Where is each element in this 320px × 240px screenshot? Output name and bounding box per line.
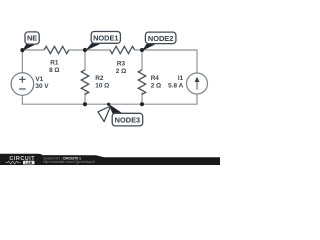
- node flag NE pointer: [22, 44, 35, 51]
- junction dot R2 bottom: [83, 102, 87, 106]
- svg-text:R1: R1: [50, 60, 59, 67]
- wire R2 bottom to bottom rail: [84, 92, 86, 104]
- V1 minus sign: [19, 88, 25, 90]
- junction dot NODE3 attach: [107, 103, 110, 106]
- junction dot NODE1: [83, 48, 87, 52]
- V1 plus sign: [19, 76, 25, 82]
- svg-text:R3: R3: [117, 60, 126, 67]
- node flag NODE3 box: [112, 113, 143, 126]
- svg-text:LAB: LAB: [25, 161, 33, 165]
- resistor R1: [44, 46, 69, 53]
- svg-text:NODE3: NODE3: [115, 116, 140, 125]
- svg-text:5.8 A: 5.8 A: [168, 83, 183, 90]
- watermark logo zigzag: [6, 161, 21, 164]
- I1 arrow stem: [196, 81, 198, 90]
- wire R4 bottom to bottom rail: [141, 92, 143, 104]
- watermark logo LAB box: [23, 161, 35, 165]
- mouse cursor arrow: [98, 106, 111, 122]
- node flag NE box: [25, 32, 39, 44]
- svg-text:NE: NE: [27, 34, 37, 43]
- resistor R3: [110, 46, 135, 53]
- svg-text:I1: I1: [178, 75, 184, 82]
- wire V1 bottom to bottom rail: [22, 94, 197, 104]
- current source I1: [187, 73, 208, 94]
- svg-text:NODE1: NODE1: [93, 34, 118, 43]
- wire top rail right (R3 to I1 top through NODE2): [135, 50, 197, 73]
- svg-text:10 Ω: 10 Ω: [95, 83, 109, 90]
- node flag NODE3 pointer: [108, 104, 123, 114]
- svg-text:NODE2: NODE2: [148, 34, 173, 43]
- resistor R4: [138, 70, 145, 95]
- resistor R2: [81, 70, 88, 95]
- node flag NODE2 pointer: [142, 44, 156, 51]
- junction dot R4 bottom: [140, 102, 144, 106]
- junction dot NODE2: [140, 48, 144, 52]
- wire NODE1 to R2 top: [84, 50, 86, 70]
- wire top rail middle (R1 to R3 through NODE1): [69, 49, 110, 51]
- node flag NODE1 pointer: [85, 43, 101, 51]
- wire top rail left (NE node to R1): [22, 49, 44, 51]
- svg-text:8 Ω: 8 Ω: [49, 67, 59, 74]
- svg-text:R4: R4: [151, 75, 160, 82]
- svg-text:http://circuitlab.com/c/7jpctu: http://circuitlab.com/c/7jpctuh4tqm3: [43, 160, 95, 164]
- junction dot NE: [20, 48, 24, 52]
- voltage source V1: [11, 73, 34, 96]
- I1 arrow head: [195, 77, 200, 82]
- svg-text:R2: R2: [95, 75, 104, 82]
- svg-text:2 Ω: 2 Ω: [116, 68, 126, 75]
- node flag NODE2 box: [145, 32, 176, 44]
- wire left branch (rail to V1 top): [21, 50, 23, 73]
- svg-text:30 V: 30 V: [35, 83, 49, 90]
- svg-text:2 Ω: 2 Ω: [151, 83, 161, 90]
- node flag NODE1 box: [91, 32, 120, 44]
- wire NODE2 to R4 top: [141, 50, 143, 70]
- svg-text:V1: V1: [35, 76, 43, 83]
- watermark bar: [0, 154, 220, 165]
